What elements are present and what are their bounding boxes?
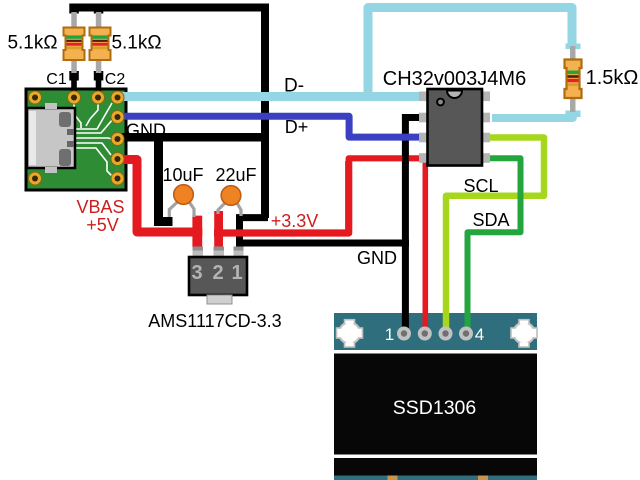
svg-text:D+: D+ — [285, 117, 309, 137]
svg-text:+5V: +5V — [86, 215, 119, 235]
svg-text:22uF: 22uF — [215, 165, 256, 185]
svg-text:2: 2 — [212, 262, 223, 284]
svg-text:5.1kΩ: 5.1kΩ — [7, 33, 57, 54]
svg-text:SSD1306: SSD1306 — [393, 397, 476, 419]
svg-text:+3.3V: +3.3V — [271, 211, 319, 231]
svg-text:AMS1117CD-3.3: AMS1117CD-3.3 — [148, 311, 281, 331]
svg-text:4: 4 — [475, 325, 484, 344]
svg-text:D-: D- — [284, 76, 304, 97]
svg-text:10uF: 10uF — [162, 165, 203, 185]
svg-text:GND: GND — [126, 121, 166, 141]
svg-text:3: 3 — [191, 262, 202, 284]
svg-text:C2: C2 — [105, 71, 126, 88]
svg-text:1.5kΩ: 1.5kΩ — [586, 67, 639, 89]
svg-text:1: 1 — [231, 262, 242, 284]
svg-text:GND: GND — [357, 248, 397, 268]
svg-text:1: 1 — [385, 325, 394, 344]
svg-text:SCL: SCL — [463, 176, 498, 196]
svg-text:5.1kΩ: 5.1kΩ — [111, 33, 161, 54]
svg-text:C1: C1 — [46, 71, 67, 88]
svg-text:CH32v003J4M6: CH32v003J4M6 — [383, 68, 526, 90]
svg-text:VBAS: VBAS — [76, 197, 124, 217]
svg-text:SDA: SDA — [472, 210, 509, 230]
